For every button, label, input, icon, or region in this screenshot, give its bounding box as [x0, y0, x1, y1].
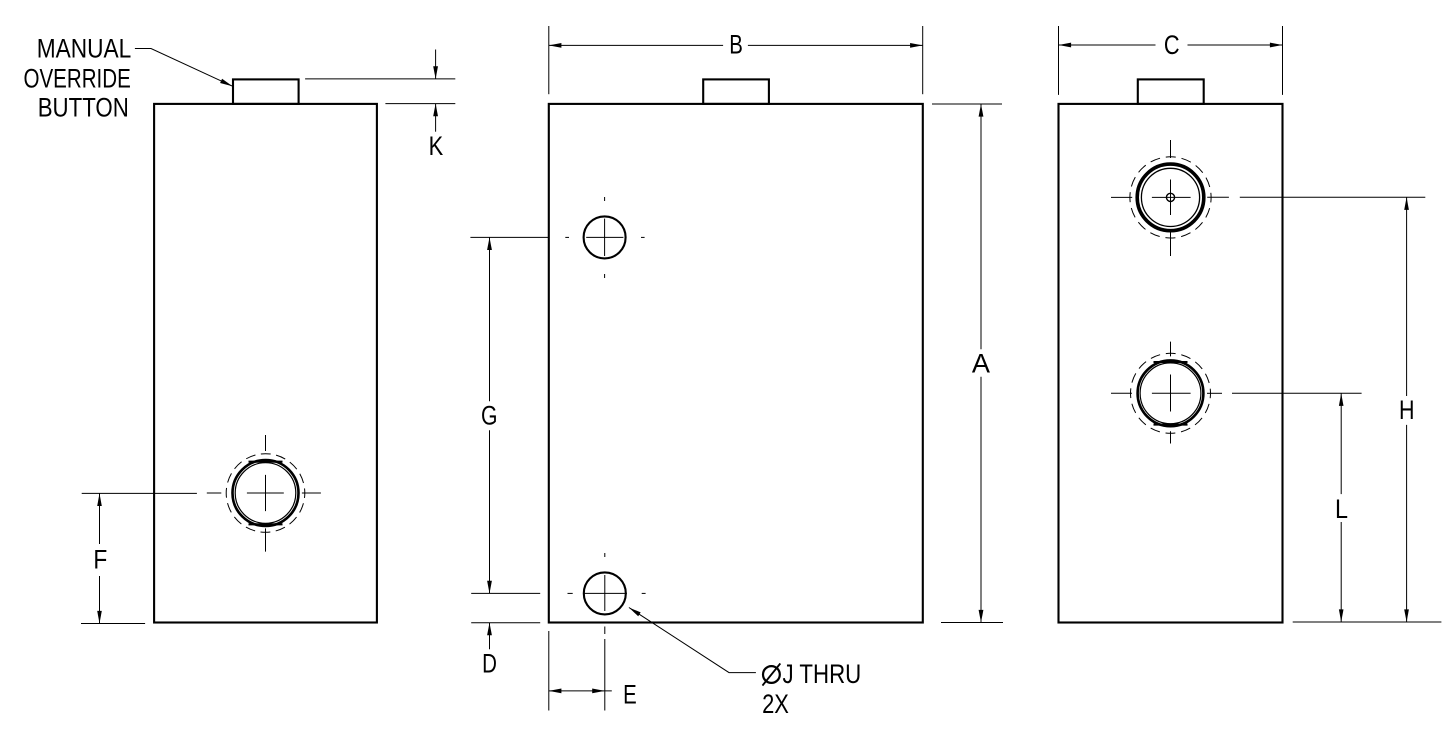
leader line to thru hole [629, 608, 756, 673]
dimension F extension lines [81, 493, 197, 623]
dimension D arrow [487, 623, 492, 650]
svg-text:K: K [429, 131, 444, 161]
svg-text:J THRU: J THRU [783, 659, 862, 689]
svg-text:G: G [481, 401, 498, 431]
svg-text:H: H [1399, 395, 1415, 425]
upper hole centerlines [565, 197, 644, 278]
right view bottom port (threaded) [1131, 353, 1211, 433]
dimension G line and arrows [487, 237, 492, 593]
right view button [1138, 79, 1204, 104]
dimension E extension lines [549, 627, 605, 711]
svg-text:A: A [972, 349, 990, 379]
left port centerlines [207, 435, 321, 552]
svg-text:L: L [1335, 494, 1348, 524]
top port centerlines [1111, 140, 1191, 256]
dimension B line and arrows [549, 43, 923, 48]
middle view upper mounting hole [584, 216, 626, 258]
left view body outline [154, 104, 377, 623]
lower hole centerlines [568, 553, 646, 611]
dimension A line and arrows [979, 104, 984, 623]
right view top port (solenoid cavity) [1130, 157, 1211, 238]
dimension F line and arrows [97, 493, 102, 623]
svg-text:OVERRIDE: OVERRIDE [24, 63, 131, 93]
dimension B extension lines [549, 26, 923, 94]
dimension D extension line [471, 622, 540, 624]
dimension L line and arrows [1339, 393, 1344, 622]
dimension K arrows [433, 50, 438, 132]
dimension L extension line [1207, 392, 1362, 394]
svg-text:BUTTON: BUTTON [38, 93, 129, 123]
svg-text:2X: 2X [762, 689, 789, 719]
right view body outline [1059, 104, 1283, 623]
svg-text:D: D [482, 649, 497, 679]
middle view lower mounting hole [584, 572, 626, 614]
diameter symbol [763, 664, 781, 686]
svg-text:E: E [623, 680, 637, 710]
bottom port centerlines [1111, 342, 1191, 444]
middle view body outline [549, 104, 923, 623]
dimension K extension lines [305, 79, 455, 104]
dimension A extension lines [932, 104, 1003, 623]
dimension H extension lines [1207, 197, 1441, 622]
label MANUAL OVERRIDE BUTTON [24, 34, 132, 123]
svg-text:F: F [93, 545, 107, 575]
dimension G extension lines [470, 237, 548, 593]
left view manual override button [233, 79, 299, 104]
dimension E line and arrows [549, 689, 612, 694]
dimension C extension lines [1059, 26, 1283, 95]
dimension C line and arrows [1059, 43, 1283, 48]
svg-text:C: C [1164, 30, 1180, 60]
svg-text:MANUAL: MANUAL [37, 34, 132, 64]
left view port circle (threaded) [226, 454, 305, 533]
middle view button [703, 79, 769, 104]
leader line to button [135, 49, 233, 87]
svg-text:B: B [729, 30, 743, 60]
dimension H line and arrows [1404, 197, 1409, 622]
